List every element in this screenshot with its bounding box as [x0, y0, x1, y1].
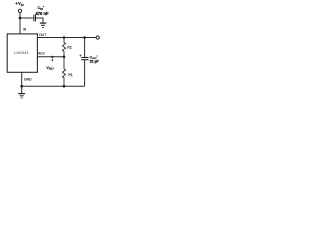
svg-text:+: + — [79, 54, 81, 58]
svg-text:22 µF: 22 µF — [90, 60, 100, 64]
output terminal — [96, 36, 99, 39]
node COUT junction — [83, 36, 86, 39]
wire COUT bottom lead — [84, 60, 86, 86]
wire OUT — [37, 37, 96, 39]
capacitor COUT — [81, 58, 88, 60]
node input junction — [19, 17, 22, 20]
wire ADJ — [37, 56, 64, 58]
wire GND pin — [21, 72, 23, 86]
wire COUT top lead — [84, 38, 86, 58]
capacitor CIN — [34, 15, 36, 22]
svg-text:ADJ: ADJ — [38, 52, 45, 56]
svg-text:R2: R2 — [67, 45, 72, 49]
svg-text:IN: IN — [23, 27, 27, 31]
node OUT-R2 junction — [63, 36, 66, 39]
wire input vertical — [19, 13, 21, 35]
VADJ arrow — [52, 58, 54, 61]
node R1 bottom junction — [63, 85, 66, 88]
wire to CIN — [20, 17, 33, 19]
resistor R1 — [62, 57, 65, 86]
op-amp U1 LM2941 box — [7, 34, 37, 72]
wire bottom rail — [22, 85, 85, 87]
svg-text:VADJ: VADJ — [46, 66, 54, 71]
resistor R2 — [62, 38, 65, 57]
ground input — [40, 23, 46, 27]
svg-text:OUT: OUT — [39, 33, 46, 37]
wire CIN to ground — [36, 18, 43, 23]
input terminal — [18, 9, 21, 12]
svg-text:GND: GND — [24, 78, 32, 82]
node ADJ junction — [63, 56, 66, 59]
svg-text:LM2941: LM2941 — [14, 50, 29, 55]
node VADJ probe dot — [51, 56, 53, 58]
ground output — [18, 86, 25, 98]
svg-text:R1: R1 — [68, 73, 73, 77]
node GND junction — [20, 85, 23, 88]
svg-text:470 nF: 470 nF — [36, 11, 49, 16]
